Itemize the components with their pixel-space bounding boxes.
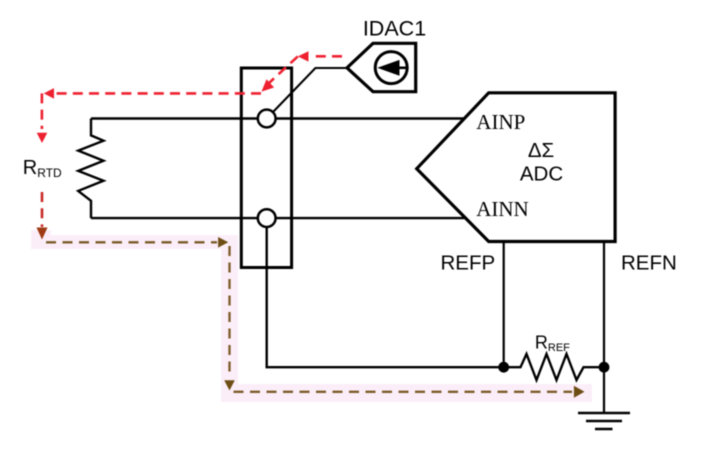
svg-text:REFN: REFN <box>621 252 677 275</box>
svg-text:IDAC1: IDAC1 <box>363 17 426 41</box>
svg-text:REFP: REFP <box>441 252 496 275</box>
svg-text:AINN: AINN <box>476 197 529 221</box>
svg-text:ΔΣ: ΔΣ <box>528 139 554 162</box>
svg-text:AINP: AINP <box>476 110 525 134</box>
svg-text:ADC: ADC <box>520 163 563 186</box>
